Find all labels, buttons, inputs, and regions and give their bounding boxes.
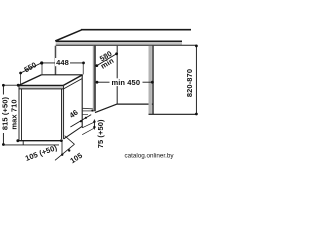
svg-text:448: 448	[56, 58, 69, 67]
leg vertical	[61, 141, 63, 155]
worktop left diagonal	[55, 30, 81, 41]
svg-text:815 (+50): 815 (+50)	[1, 96, 10, 130]
floor line right	[149, 113, 197, 115]
niche kick lines	[82, 107, 93, 110]
niche interior back corner	[116, 46, 118, 104]
dishwasher top slab	[19, 85, 64, 89]
dishwasher left edge	[19, 86, 22, 141]
side bottom diagonal	[64, 126, 83, 139]
dim 580 min	[97, 54, 117, 66]
niche floor back edge	[117, 103, 153, 105]
dim 46	[70, 115, 91, 127]
svg-text:catalog.onliner.by: catalog.onliner.by	[124, 153, 174, 160]
right cabinet wall	[148, 46, 151, 114]
dim 105 diagonal	[55, 144, 75, 160]
leader door bottom	[65, 136, 75, 145]
partition bottom diagonal	[95, 104, 117, 113]
dishwasher door gap	[62, 89, 64, 139]
worktop back edge	[81, 29, 191, 31]
dim 815 (+50)	[2, 85, 4, 144]
dishwasher bottom edge	[18, 140, 62, 142]
top face right diagonals	[63, 75, 82, 86]
top face left diagonal	[19, 75, 42, 86]
dim max 710	[17, 84, 20, 87]
foot tick	[22, 141, 24, 145]
door right edge	[62, 86, 64, 139]
dim 550	[21, 63, 42, 73]
svg-text:820-870: 820-870	[185, 69, 194, 97]
top face back edge	[42, 74, 83, 76]
svg-text:min 450: min 450	[111, 78, 140, 87]
floor line left	[3, 144, 59, 146]
dim min 450	[97, 81, 152, 83]
dim 75 (+50)	[93, 120, 95, 130]
svg-text:75 (+50): 75 (+50)	[96, 119, 105, 148]
svg-text:max 710: max 710	[9, 99, 18, 129]
worktop front face	[56, 41, 182, 45]
dim 820-870	[195, 45, 197, 114]
niche partition wall	[93, 46, 95, 111]
back right vertical	[81, 75, 83, 128]
niche left outer wall	[54, 46, 56, 75]
dim 448	[42, 62, 84, 64]
